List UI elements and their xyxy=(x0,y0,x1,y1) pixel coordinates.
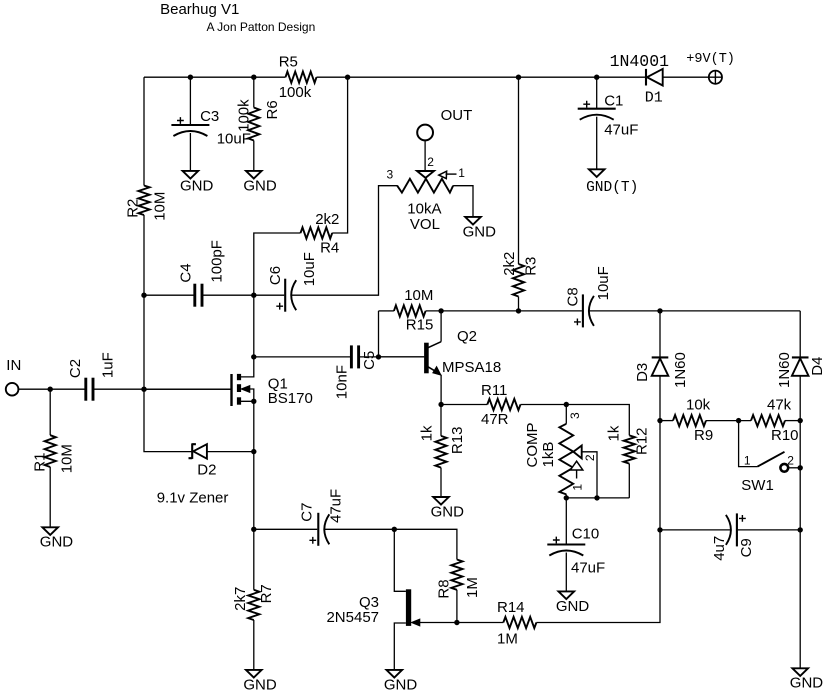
svg-text:R10: R10 xyxy=(771,427,799,444)
svg-text:C3: C3 xyxy=(200,108,219,125)
svg-text:2k2: 2k2 xyxy=(501,252,518,276)
svg-text:R9: R9 xyxy=(694,427,713,444)
svg-text:GND: GND xyxy=(384,676,418,693)
svg-text:C10: C10 xyxy=(572,525,600,542)
svg-text:10M: 10M xyxy=(58,444,75,473)
svg-text:1M: 1M xyxy=(464,577,481,598)
svg-text:47k: 47k xyxy=(767,397,792,414)
svg-text:R8: R8 xyxy=(436,579,453,598)
svg-text:1k: 1k xyxy=(605,425,622,441)
svg-text:GND(T): GND(T) xyxy=(586,180,638,196)
svg-text:3: 3 xyxy=(387,168,394,182)
svg-text:IN: IN xyxy=(6,357,21,374)
svg-text:VOL: VOL xyxy=(410,216,440,233)
svg-text:1k: 1k xyxy=(419,425,436,441)
svg-text:C9: C9 xyxy=(738,538,755,557)
svg-text:OUT: OUT xyxy=(441,107,473,124)
svg-text:D3: D3 xyxy=(634,363,651,382)
svg-text:3: 3 xyxy=(568,412,582,419)
svg-text:10M: 10M xyxy=(152,192,169,221)
svg-text:R5: R5 xyxy=(279,54,298,71)
svg-text:GND: GND xyxy=(463,223,497,240)
svg-text:1kB: 1kB xyxy=(540,442,557,468)
svg-text:R13: R13 xyxy=(449,427,466,455)
svg-text:GND: GND xyxy=(431,503,465,520)
svg-text:C6: C6 xyxy=(267,266,284,285)
svg-text:R12: R12 xyxy=(634,427,651,455)
svg-text:C1: C1 xyxy=(604,92,623,109)
svg-text:GND: GND xyxy=(243,676,277,693)
svg-text:GND: GND xyxy=(40,534,74,551)
svg-text:1N4001: 1N4001 xyxy=(610,52,670,71)
svg-text:47uF: 47uF xyxy=(327,489,344,523)
svg-text:R1: R1 xyxy=(31,453,48,472)
svg-text:2: 2 xyxy=(583,454,597,461)
svg-text:100pF: 100pF xyxy=(208,240,225,283)
svg-text:C4: C4 xyxy=(178,263,195,282)
svg-text:R15: R15 xyxy=(406,317,434,334)
svg-text:R2: R2 xyxy=(125,199,142,218)
svg-text:Q2: Q2 xyxy=(457,328,477,345)
svg-text:10kA: 10kA xyxy=(407,200,441,217)
svg-text:10uF: 10uF xyxy=(301,252,318,286)
svg-text:R14: R14 xyxy=(497,599,525,616)
svg-text:D1: D1 xyxy=(645,90,663,107)
svg-text:SW1: SW1 xyxy=(741,477,774,494)
svg-text:GND: GND xyxy=(180,177,214,194)
svg-text:R7: R7 xyxy=(258,584,275,603)
svg-text:2: 2 xyxy=(427,155,434,169)
svg-text:47uF: 47uF xyxy=(571,560,605,577)
svg-text:1: 1 xyxy=(744,453,751,467)
svg-text:47R: 47R xyxy=(481,411,509,428)
svg-text:C2: C2 xyxy=(67,359,84,378)
svg-text:1M: 1M xyxy=(497,630,518,647)
svg-text:C8: C8 xyxy=(565,287,582,306)
svg-text:1N60: 1N60 xyxy=(776,352,793,388)
svg-text:1N60: 1N60 xyxy=(672,352,689,388)
svg-text:10k: 10k xyxy=(686,397,711,414)
svg-text:D4: D4 xyxy=(809,357,826,376)
svg-text:MPSA18: MPSA18 xyxy=(442,359,501,376)
svg-text:GND: GND xyxy=(556,598,590,615)
svg-text:2: 2 xyxy=(787,453,794,467)
svg-text:R3: R3 xyxy=(523,257,540,276)
svg-text:COMP: COMP xyxy=(524,423,541,468)
svg-text:10uF: 10uF xyxy=(595,266,612,300)
svg-text:2k2: 2k2 xyxy=(315,211,339,228)
svg-text:R11: R11 xyxy=(481,382,507,399)
svg-text:4u7: 4u7 xyxy=(711,536,728,561)
svg-text:10uF: 10uF xyxy=(217,131,251,148)
svg-text:A Jon Patton Design: A Jon Patton Design xyxy=(207,20,316,34)
svg-text:100k: 100k xyxy=(236,99,253,132)
svg-text:1uF: 1uF xyxy=(100,352,117,378)
svg-text:47uF: 47uF xyxy=(604,122,638,139)
svg-text:9.1v Zener: 9.1v Zener xyxy=(157,489,229,506)
svg-text:10nF: 10nF xyxy=(333,365,350,399)
svg-text:BS170: BS170 xyxy=(268,390,313,407)
svg-text:10M: 10M xyxy=(404,287,433,304)
svg-text:GND: GND xyxy=(243,177,277,194)
svg-text:+9V(T): +9V(T) xyxy=(686,52,735,67)
svg-text:C7: C7 xyxy=(299,503,316,522)
svg-text:R6: R6 xyxy=(264,100,281,119)
svg-text:1: 1 xyxy=(458,166,465,180)
svg-text:2k7: 2k7 xyxy=(232,587,249,611)
svg-text:2N5457: 2N5457 xyxy=(326,609,379,626)
svg-text:R4: R4 xyxy=(320,240,339,257)
svg-text:C5: C5 xyxy=(361,351,378,370)
svg-text:100k: 100k xyxy=(279,84,312,101)
svg-text:1: 1 xyxy=(571,484,585,491)
svg-text:GND: GND xyxy=(790,675,824,692)
svg-text:Bearhug V1: Bearhug V1 xyxy=(160,1,239,18)
svg-text:D2: D2 xyxy=(197,461,216,478)
